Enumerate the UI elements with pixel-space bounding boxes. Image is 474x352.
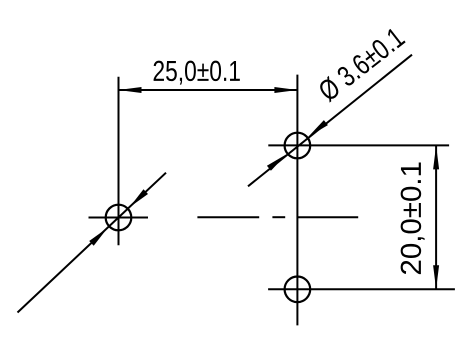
dimension text 20,0±0.1 rotated	[401, 162, 425, 274]
arrowhead top of 20,0 dimension	[433, 145, 439, 169]
extension/center line left vertical	[118, 77, 120, 246]
arrowhead left of 25,0 dimension	[119, 87, 142, 93]
center mark horizontal of left hole	[89, 217, 149, 219]
arrowhead pointing SW at left hole NE edge	[130, 189, 149, 207]
extension/center line right vertical	[296, 75, 298, 326]
arrowhead pointing NE at top hole SW edge	[267, 154, 287, 171]
dimension line 20,0 vertical	[435, 145, 437, 289]
dashed centerline between holes	[197, 216, 259, 218]
diagonal leader through top-right hole	[248, 55, 412, 187]
diameter text Ø 3.6±0.1	[316, 26, 406, 103]
hole circle bottom right	[285, 277, 311, 303]
dimension text 25,0±0.1	[154, 61, 240, 85]
center mark / extension horizontal of bottom hole	[268, 288, 455, 290]
arrowhead bottom of 20,0 dimension	[433, 265, 439, 289]
dimension line 25,0	[119, 89, 298, 91]
center mark / extension horizontal of top hole	[268, 144, 449, 146]
arrowhead right of 25,0 dimension	[274, 87, 297, 93]
arrowhead pointing NE at left hole SW edge	[89, 228, 108, 246]
arrowhead pointing SW at top hole NE edge	[308, 120, 328, 137]
diagonal leader through left hole	[18, 173, 167, 313]
hole circle left	[106, 205, 132, 231]
hole circle top right	[285, 133, 311, 159]
